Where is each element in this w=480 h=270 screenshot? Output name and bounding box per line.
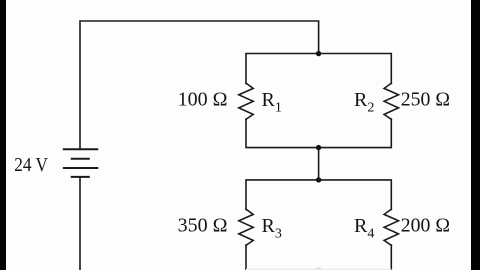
- resistor R2 zigzag: [384, 83, 398, 119]
- svg-text:100 Ω: 100 Ω: [178, 89, 228, 111]
- resistor R3 zigzag: [239, 209, 253, 245]
- resistor R4 zigzag: [384, 209, 398, 245]
- faint ghost of bottom junction dot: [316, 267, 321, 270]
- wire top from battery positive to node A: [80, 21, 319, 149]
- svg-text:350 Ω: 350 Ω: [178, 215, 228, 237]
- svg-text:250 Ω: 250 Ω: [401, 89, 450, 111]
- faint cut-off bottom rail of lower bank: [246, 268, 391, 270]
- battery B1 24V plates: [63, 149, 99, 177]
- node A junction dot: [316, 51, 321, 56]
- wire top rail of upper parallel bank: [246, 54, 391, 84]
- wire battery negative lead to bottom edge: [79, 177, 81, 270]
- wire top rail of lower parallel bank: [246, 180, 391, 210]
- svg-text:24 V: 24 V: [14, 154, 48, 176]
- node B junction dot: [316, 145, 321, 150]
- wire connector between node B and node C: [318, 148, 320, 180]
- node C junction dot: [316, 177, 321, 182]
- svg-text:200 Ω: 200 Ω: [401, 215, 450, 237]
- wire below R3 to bottom edge: [245, 245, 247, 270]
- resistor R1 zigzag: [239, 83, 253, 119]
- wire below R4 to bottom edge: [390, 245, 392, 270]
- wire bottom rail of upper parallel bank: [246, 119, 391, 148]
